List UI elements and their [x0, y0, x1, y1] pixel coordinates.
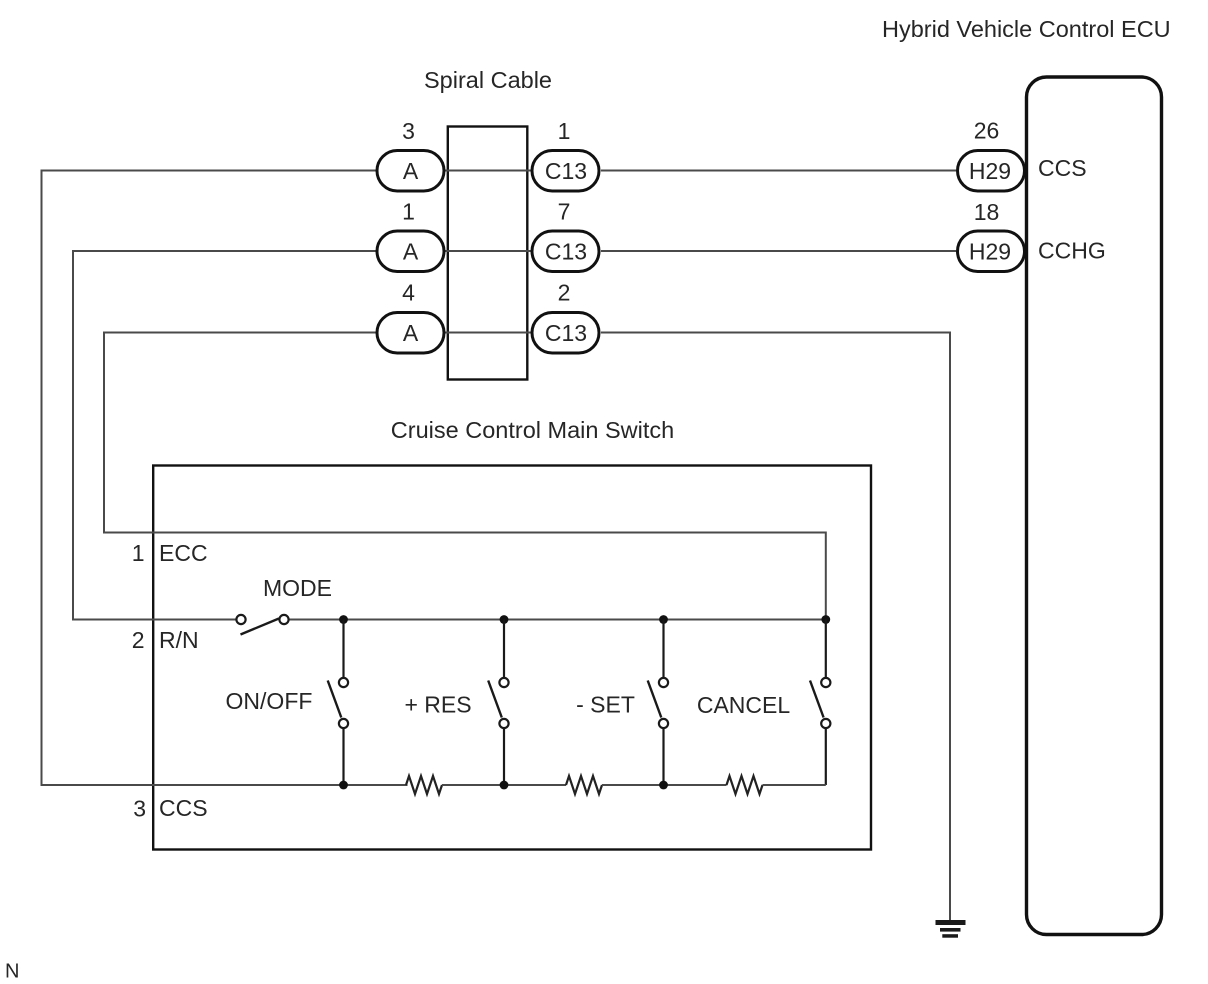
wire row1 right: C13 to H29 — [601, 170, 956, 172]
svg-text:1: 1 — [402, 199, 415, 225]
svg-text:+ RES: + RES — [404, 692, 471, 718]
svg-text:CANCEL: CANCEL — [697, 692, 791, 718]
svg-text:A: A — [403, 158, 419, 184]
wire left bus 1 down to CCS row — [41, 170, 43, 787]
node CCS-RES junction — [500, 781, 509, 790]
wire row2 right: C13 to H29 — [601, 250, 956, 252]
node R/N-SET junction — [659, 615, 668, 624]
resistor R3 — [727, 776, 763, 794]
svg-text:C13: C13 — [545, 239, 587, 265]
node CCS-SET junction — [659, 781, 668, 790]
svg-text:Cruise Control Main Switch: Cruise Control Main Switch — [391, 417, 674, 443]
svg-text:Hybrid Vehicle Control ECU: Hybrid Vehicle Control ECU — [882, 16, 1171, 42]
connector C13 pin 2 — [532, 313, 599, 354]
svg-text:H29: H29 — [969, 158, 1011, 184]
svg-text:2: 2 — [558, 280, 571, 306]
wire row1 left: A pin3 to left bus — [42, 170, 377, 172]
connector C13 pin 1 — [532, 151, 599, 192]
resistor R2 — [566, 776, 602, 794]
node R/N-ON/OFF junction — [339, 615, 348, 624]
wire through spiral cable row2 — [445, 250, 531, 252]
svg-text:ON/OFF: ON/OFF — [226, 688, 313, 714]
svg-text:C13: C13 — [545, 158, 587, 184]
switch + RES — [488, 620, 508, 786]
node R/N-CANCEL junction — [821, 615, 830, 624]
node CCS-ON/OFF junction — [339, 781, 348, 790]
svg-text:CCS: CCS — [1038, 155, 1087, 181]
node R/N-RES junction — [500, 615, 509, 624]
svg-text:18: 18 — [974, 199, 1000, 225]
svg-text:CCHG: CCHG — [1038, 238, 1106, 264]
svg-text:A: A — [403, 239, 419, 265]
connector H29 pin 26 — [958, 151, 1025, 192]
switch MODE — [236, 615, 288, 635]
wire R/N row right segment — [289, 619, 826, 621]
wire CCS row segment 3 — [602, 784, 727, 786]
svg-text:N: N — [5, 961, 19, 983]
wire row2 left: A pin1 to left bus — [73, 250, 376, 252]
svg-text:7: 7 — [558, 199, 571, 225]
wire left bus 2 down to R/N row — [72, 250, 74, 621]
svg-text:3: 3 — [402, 118, 415, 144]
svg-text:H29: H29 — [969, 239, 1011, 265]
wire row3 right: C13 to ground drop — [601, 333, 950, 921]
wire CCS row segment 4 — [763, 784, 826, 786]
wire ECC drop to R/N row — [825, 532, 827, 620]
wire left bus 3 down to ECC row — [103, 332, 105, 534]
cruise control main switch box — [153, 466, 871, 850]
resistor R1 — [406, 776, 442, 794]
svg-text:Spiral Cable: Spiral Cable — [424, 67, 552, 93]
wire CCS row segment 2 — [442, 784, 566, 786]
connector A pin 4 — [377, 313, 444, 354]
svg-text:1: 1 — [132, 540, 145, 566]
wire through spiral cable row1 — [445, 170, 531, 172]
svg-text:4: 4 — [402, 280, 415, 306]
svg-text:MODE: MODE — [263, 575, 332, 601]
svg-text:CCS: CCS — [159, 795, 208, 821]
connector A pin 1 — [377, 231, 444, 272]
svg-text:A: A — [403, 320, 419, 346]
svg-text:3: 3 — [133, 796, 146, 822]
svg-text:- SET: - SET — [576, 692, 635, 718]
connector A pin 3 — [377, 151, 444, 192]
switch ON/OFF — [328, 620, 348, 786]
wire ECC row — [104, 532, 826, 534]
svg-text:1: 1 — [558, 118, 571, 144]
connector H29 pin 18 — [958, 231, 1025, 272]
svg-text:ECC: ECC — [159, 540, 208, 566]
wire R/N row left segment — [73, 619, 237, 621]
svg-text:C13: C13 — [545, 320, 587, 346]
ECU block — [1027, 77, 1162, 935]
wire CCS row segment 1 — [42, 784, 408, 786]
svg-text:R/N: R/N — [159, 627, 199, 653]
connector C13 pin 7 — [532, 231, 599, 272]
wire row3 left: A pin4 to left bus — [104, 332, 376, 334]
switch CANCEL — [810, 620, 830, 786]
ground — [936, 920, 966, 938]
spiral cable block — [448, 127, 528, 380]
svg-text:26: 26 — [974, 118, 1000, 144]
svg-text:2: 2 — [132, 627, 145, 653]
wire through spiral cable row3 — [445, 332, 531, 334]
switch - SET — [648, 620, 668, 786]
